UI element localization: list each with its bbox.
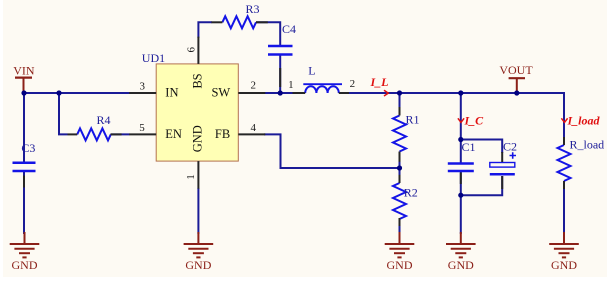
wire R2 to ground xyxy=(399,218,401,234)
resistor R2 xyxy=(393,183,406,219)
svg-text:GND: GND xyxy=(12,258,38,272)
component lead stubs (black pins) xyxy=(24,22,564,226)
wire C3 bottom to ground xyxy=(23,172,25,234)
resistor R3 xyxy=(222,16,256,28)
svg-text:EN: EN xyxy=(165,127,182,141)
svg-text:C3: C3 xyxy=(21,141,35,155)
wire R_load to ground xyxy=(563,181,565,234)
svg-text:R2: R2 xyxy=(404,186,418,200)
svg-text:SW: SW xyxy=(211,86,230,100)
svg-text:VIN: VIN xyxy=(13,63,35,77)
svg-text:4: 4 xyxy=(250,122,256,134)
svg-text:C4: C4 xyxy=(282,22,296,36)
svg-text:3: 3 xyxy=(140,80,146,92)
capacitor C4 xyxy=(268,46,293,55)
ground symbol (R_load) xyxy=(549,232,579,257)
svg-text:GND: GND xyxy=(191,125,205,152)
svg-text:C1: C1 xyxy=(462,140,476,154)
svg-text:L: L xyxy=(308,64,315,78)
capacitor C1 xyxy=(448,164,474,172)
wire inductor to VOUT rail right end xyxy=(348,93,564,138)
wire VIN rail left segment xyxy=(24,92,130,94)
svg-text:UD1: UD1 xyxy=(142,51,165,65)
wire R4 branch down xyxy=(59,93,68,134)
pin 5 EN xyxy=(129,133,156,135)
current label I_L xyxy=(370,75,389,96)
C1 pin lead xyxy=(460,173,462,185)
capacitor C2 (polarized) xyxy=(490,152,516,174)
pin 6 BS xyxy=(197,37,199,64)
current label I_load xyxy=(561,114,600,128)
wire pin1 to ground xyxy=(197,188,199,234)
R_load pin leads xyxy=(563,137,565,145)
svg-text:1: 1 xyxy=(185,174,197,180)
wire junction to R1 xyxy=(399,93,401,108)
resistor R1 xyxy=(393,116,406,152)
R1 pin leads xyxy=(399,107,401,116)
ground symbol (R2) xyxy=(385,232,415,257)
svg-text:GND: GND xyxy=(387,258,413,272)
junction node L out / R1 xyxy=(397,90,402,95)
ground symbol (UD1 pin1) xyxy=(184,232,214,257)
svg-text:GND: GND xyxy=(448,258,474,272)
junction node C2 bottom xyxy=(458,193,463,198)
C2 pin leads xyxy=(501,152,503,162)
wire FB to divider node xyxy=(264,134,400,168)
svg-text:GND: GND xyxy=(551,258,577,272)
svg-text:I_C: I_C xyxy=(464,114,485,128)
junction node C2 top xyxy=(458,137,463,142)
svg-text:R_load: R_load xyxy=(570,138,605,152)
wire R4 to EN pin xyxy=(111,133,130,135)
inductor L xyxy=(303,84,342,93)
svg-text:R4: R4 xyxy=(97,113,111,127)
wire VIN down to C3 xyxy=(23,93,25,162)
wire C2 bottom branch xyxy=(461,176,502,195)
current label I_C xyxy=(458,114,484,128)
svg-text:VOUT: VOUT xyxy=(499,63,533,77)
junction node SW/C4 xyxy=(278,90,283,95)
R2 pin leads xyxy=(399,175,401,183)
resistor R4 xyxy=(77,128,111,140)
pin 1 GND xyxy=(197,161,199,189)
pin 2 SW xyxy=(238,92,265,94)
ground symbol (C3 branch) xyxy=(10,232,40,257)
junction node VIN xyxy=(21,90,26,95)
C4 pin lead xyxy=(279,68,281,87)
wire C1 bottom xyxy=(460,172,462,234)
R3 pin leads xyxy=(211,21,222,23)
wire C1 branch down xyxy=(460,93,462,163)
svg-text:I_L: I_L xyxy=(370,75,389,89)
svg-text:IN: IN xyxy=(165,86,178,100)
svg-text:FB: FB xyxy=(215,127,230,141)
power port VOUT xyxy=(509,78,525,93)
junction node VOUT xyxy=(514,90,519,95)
pin 4 FB xyxy=(238,133,265,135)
junction node divider FB xyxy=(397,165,402,170)
wire C2 top branch xyxy=(461,140,502,154)
svg-text:C2: C2 xyxy=(503,139,517,153)
wire pin6 up to R3 xyxy=(198,22,212,38)
wire R1 to node xyxy=(399,152,401,176)
resistor R_load xyxy=(558,145,571,181)
C3 pin lead xyxy=(23,176,25,188)
svg-text:5: 5 xyxy=(139,122,145,134)
svg-text:6: 6 xyxy=(185,47,197,53)
junction node C1 branch xyxy=(458,90,463,95)
wire SW pin to inductor xyxy=(264,92,294,94)
svg-text:2: 2 xyxy=(250,80,256,92)
IC UD1 (regulator) body xyxy=(156,64,238,161)
svg-text:1: 1 xyxy=(288,79,294,91)
L pin leads xyxy=(293,92,306,94)
wire R3 to C4 top xyxy=(256,22,280,45)
svg-text:I_load: I_load xyxy=(567,114,601,128)
svg-text:BS: BS xyxy=(191,73,205,88)
svg-text:GND: GND xyxy=(185,258,211,272)
wire VOUT branch to R_load xyxy=(563,93,565,138)
power port VIN xyxy=(15,78,32,93)
junction node R4 tap xyxy=(56,90,61,95)
pin 3 IN xyxy=(129,92,156,94)
wire C4 bottom to SW junction xyxy=(279,56,281,94)
svg-text:R3: R3 xyxy=(246,2,260,16)
svg-text:2: 2 xyxy=(350,78,356,90)
R4 pin leads xyxy=(68,133,78,135)
svg-text:R1: R1 xyxy=(406,113,420,127)
capacitor C3 xyxy=(13,163,36,171)
ground symbol (C1 C2) xyxy=(446,232,476,257)
